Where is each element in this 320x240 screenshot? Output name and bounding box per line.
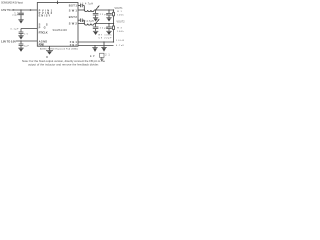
svg-text:1.8V TO 5.5V: 1.8V TO 5.5V — [1, 40, 16, 44]
svg-text:1μF: 1μF — [24, 46, 30, 48]
svg-text:FB2: FB2 — [70, 43, 78, 47]
svg-text:RT/CLK: RT/CLK — [39, 30, 48, 34]
svg-text:R7 100k: R7 100k — [99, 34, 113, 36]
svg-text:22μF: 22μF — [100, 14, 109, 16]
svg-text:BST2: BST2 — [69, 15, 78, 19]
svg-text:PGND: PGND — [39, 43, 45, 47]
svg-text:VOUT2: VOUT2 — [117, 21, 126, 23]
svg-text:0.1μF: 0.1μF — [11, 28, 20, 30]
svg-text:100k: 100k — [117, 15, 124, 17]
svg-text:SW1: SW1 — [69, 8, 78, 12]
svg-text:R1: R1 — [117, 11, 122, 13]
svg-text:21: 21 — [105, 55, 110, 57]
svg-text:10kΩ: 10kΩ — [116, 40, 124, 42]
svg-text:22μF: 22μF — [100, 27, 109, 29]
svg-text:4.7nF: 4.7nF — [116, 45, 125, 47]
svg-text:EP: EP — [90, 56, 95, 58]
svg-text:output of the inductor and rem: output of the inductor and remove the fe… — [28, 62, 99, 66]
svg-text:EN/SY: EN/SY — [39, 13, 51, 17]
svg-text:VOUT1: VOUT1 — [115, 8, 124, 10]
svg-text:AGND PGND Exposed Pad (GND): AGND PGND Exposed Pad (GND) — [40, 48, 78, 51]
svg-text:C9 22pF: C9 22pF — [99, 37, 113, 39]
svg-text:BST1: BST1 — [69, 4, 78, 8]
svg-text:2.2μF: 2.2μF — [12, 15, 19, 17]
svg-text:100k: 100k — [117, 31, 124, 33]
svg-text:SW2: SW2 — [69, 22, 78, 26]
svg-text:R3: R3 — [117, 28, 122, 30]
svg-text:SGM61430 4.5V Input: SGM61430 4.5V Input — [1, 2, 23, 5]
svg-text:SGM61430: SGM61430 — [53, 28, 68, 32]
